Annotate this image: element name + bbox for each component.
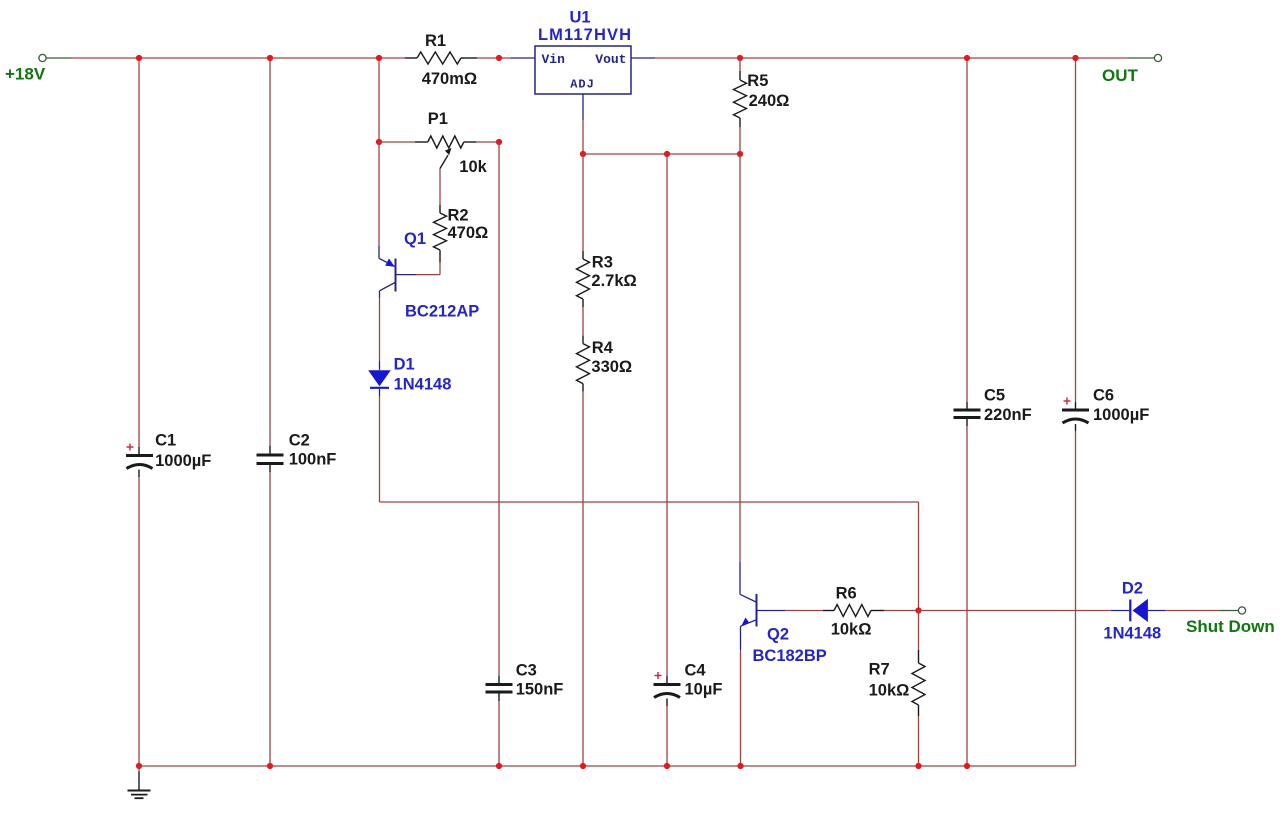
svg-text:C2: C2: [289, 432, 310, 450]
svg-text:OUT: OUT: [1102, 66, 1139, 85]
svg-text:100nF: 100nF: [289, 451, 337, 469]
svg-text:BC212AP: BC212AP: [405, 303, 479, 321]
node junction C1 top: [136, 55, 142, 61]
svg-text:Q2: Q2: [767, 626, 789, 644]
node junction C2 bottom: [267, 763, 273, 769]
svg-text:1N4148: 1N4148: [1103, 625, 1161, 643]
polarity + C4: [655, 675, 662, 677]
svg-text:10kΩ: 10kΩ: [831, 621, 872, 639]
node junction x379 top: [376, 55, 382, 61]
diode D2: [1111, 610, 1129, 612]
node junction Q2 emitter bottom: [737, 763, 743, 769]
wire shutdown net horizontal: [380, 501, 919, 503]
svg-text:C5: C5: [984, 387, 1005, 405]
svg-text:U1: U1: [570, 9, 591, 27]
capacitor C3: [498, 676, 500, 683]
svg-text:C1: C1: [155, 432, 176, 450]
svg-text:470Ω: 470Ω: [448, 224, 489, 242]
wire Q1 to D1: [379, 298, 381, 362]
svg-text:R2: R2: [448, 207, 469, 225]
node junction C3 bottom: [496, 763, 502, 769]
svg-text:LM117HVH: LM117HVH: [538, 26, 632, 44]
wire Q2 collector up: [739, 154, 741, 562]
svg-text:C6: C6: [1093, 387, 1114, 405]
resistor R3: [582, 251, 584, 259]
terminal OUT: [1128, 57, 1155, 59]
svg-text:D2: D2: [1122, 580, 1143, 598]
resistor R6: [823, 610, 834, 612]
wire R2 to Q1 base: [439, 262, 441, 275]
node junction R6 R7: [915, 607, 921, 613]
svg-text:R7: R7: [869, 660, 890, 678]
wire ADJ down: [582, 120, 584, 154]
wire bottom rail: [139, 765, 1076, 767]
wire C5 bottom: [966, 426, 968, 766]
node junction x667 mid: [664, 151, 670, 157]
polarity + C1: [127, 446, 134, 448]
svg-text:P1: P1: [428, 110, 448, 128]
node junction R7 bottom: [915, 763, 921, 769]
wire Q2 emitter down: [740, 650, 742, 766]
node junction C4 bottom: [664, 763, 670, 769]
node junction C2 top: [267, 55, 273, 61]
terminal Shut Down: [1219, 610, 1238, 612]
node junction R5 top: [737, 55, 743, 61]
wire C4 bottom: [666, 706, 668, 766]
resistor R7: [918, 650, 920, 663]
polarity + C6: [1064, 400, 1071, 402]
svg-text:R5: R5: [747, 72, 768, 90]
svg-text:10µF: 10µF: [685, 681, 723, 699]
wire P1 left: [379, 141, 415, 143]
resistor R5: [739, 58, 741, 71]
svg-text:R3: R3: [592, 253, 613, 271]
node junction C6 top: [1072, 55, 1078, 61]
svg-text:BC182BP: BC182BP: [753, 647, 827, 665]
wire C6 bottom: [1075, 431, 1077, 766]
svg-text:R1: R1: [425, 32, 446, 50]
wire C5 top: [966, 58, 968, 402]
wire C4 top: [666, 154, 668, 676]
node junction R4 bottom: [580, 763, 586, 769]
terminal +18V: [39, 54, 46, 61]
wire shutdown net down: [918, 502, 920, 611]
node junction C5 bottom: [964, 763, 970, 769]
wire top rail right: [655, 57, 1128, 59]
wire C3 top: [498, 142, 500, 676]
potentiometer P1: [415, 141, 428, 143]
wire R6 to node: [884, 610, 919, 612]
wire D2 to terminal: [1165, 610, 1219, 612]
resistor R1: [405, 57, 417, 59]
wire P1 right: [476, 141, 499, 143]
svg-text:Shut Down: Shut Down: [1186, 617, 1275, 636]
wire R5 bottom: [739, 127, 741, 154]
transistor Q2: [739, 562, 741, 594]
wire D1 down: [379, 396, 381, 502]
wire node to D2: [919, 610, 1111, 612]
svg-text:1000µF: 1000µF: [1093, 406, 1149, 424]
node junction R5 bottom: [737, 151, 743, 157]
svg-text:ADJ: ADJ: [570, 78, 595, 92]
wire Q2 base to R6: [785, 610, 823, 612]
node junction C5 top: [964, 55, 970, 61]
node junction P1 left: [376, 139, 382, 145]
svg-text:220nF: 220nF: [984, 406, 1032, 424]
wire x379 top: [378, 58, 380, 142]
wire C1 top: [138, 58, 140, 447]
svg-text:10k: 10k: [459, 158, 487, 176]
node junction C1 bottom: [136, 763, 142, 769]
wire R4 bottom: [582, 392, 584, 766]
svg-text:D1: D1: [394, 356, 415, 374]
wire R7 top: [918, 611, 920, 651]
wire wiper to R2: [439, 169, 441, 206]
svg-text:470mΩ: 470mΩ: [422, 70, 477, 88]
svg-text:Q1: Q1: [404, 230, 426, 248]
wire top rail left: [72, 57, 405, 59]
capacitor C5: [966, 402, 968, 409]
wire R7 bottom: [918, 716, 920, 766]
capacitor C4: [666, 676, 668, 683]
wire C3 bottom: [498, 701, 500, 766]
svg-text:Vin: Vin: [542, 52, 566, 67]
wire C2 bottom: [269, 472, 271, 766]
svg-text:10kΩ: 10kΩ: [869, 682, 910, 700]
svg-text:1N4148: 1N4148: [394, 376, 452, 394]
op-amp U1 regulator box: [511, 57, 535, 59]
wire P1 left to Q1: [378, 142, 380, 246]
wire R3 top: [582, 154, 584, 251]
wire C6 top: [1075, 58, 1077, 402]
node junction x499 top: [496, 55, 502, 61]
wire C2 top: [269, 58, 271, 446]
capacitor C6: [1075, 402, 1077, 409]
resistor R2: [439, 205, 441, 213]
node junction ADJ: [580, 151, 586, 157]
svg-text:1000µF: 1000µF: [155, 452, 211, 470]
svg-text:C3: C3: [516, 662, 537, 680]
svg-text:R6: R6: [836, 585, 857, 603]
svg-text:R4: R4: [592, 339, 614, 357]
diode D1: [379, 361, 381, 370]
svg-text:Vout: Vout: [595, 52, 626, 67]
resistor R4: [582, 336, 584, 344]
wire ADJ row: [583, 153, 740, 155]
node junction P1 right: [496, 139, 502, 145]
svg-text:240Ω: 240Ω: [749, 92, 790, 110]
svg-text:+18V: +18V: [5, 65, 46, 84]
wire C1 bottom: [138, 477, 140, 766]
wire R1 to U1: [477, 57, 511, 59]
svg-text:C4: C4: [685, 662, 707, 680]
wire R3 to R4: [582, 307, 584, 336]
ground: [138, 766, 140, 772]
svg-text:330Ω: 330Ω: [591, 358, 632, 376]
capacitor C2: [269, 446, 271, 454]
capacitor C1: [138, 447, 140, 454]
svg-text:2.7kΩ: 2.7kΩ: [591, 272, 636, 290]
svg-text:150nF: 150nF: [516, 681, 564, 699]
transistor Q1: [378, 246, 380, 258]
